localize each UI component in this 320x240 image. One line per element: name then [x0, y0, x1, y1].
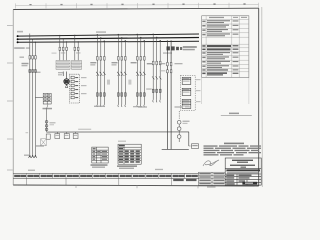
label B left	[112, 62, 118, 63]
label C bottom	[133, 106, 142, 107]
control panel dotted box	[69, 74, 79, 103]
strip lower dividers	[26, 178, 171, 185]
bus L2	[18, 38, 200, 40]
legend row 8	[202, 57, 205, 59]
fuses B	[118, 57, 127, 61]
company band	[226, 169, 260, 171]
feeder1 bottom arrows	[29, 155, 37, 158]
legend row 3	[202, 29, 205, 31]
legend row 1	[202, 20, 238, 36]
OL B	[117, 93, 126, 96]
reference notes lines	[204, 145, 262, 155]
caption table R	[117, 165, 137, 167]
label D left	[147, 63, 153, 64]
motor A terminals	[97, 105, 105, 107]
strip second row right cells	[173, 179, 196, 181]
fuse labels S1	[61, 52, 66, 53]
contacts B	[117, 72, 126, 76]
title rows text	[226, 175, 251, 185]
signature scribble	[203, 160, 219, 166]
instrument box 1	[182, 77, 191, 84]
bottom run wire	[162, 132, 189, 150]
legend row 11	[202, 69, 205, 71]
bus L1	[18, 34, 200, 36]
hanging terminal boxes	[46, 132, 78, 139]
contacts C	[136, 72, 145, 76]
label feeder1 mid	[22, 63, 29, 65]
sheet right edge	[261, 7, 264, 187]
starter S1 drop wires	[60, 36, 78, 61]
label feeder1 top	[14, 47, 25, 49]
bus label	[96, 31, 106, 33]
long control wire	[46, 131, 188, 133]
bottom ruler ticks	[76, 185, 198, 188]
meter tap wire	[35, 97, 43, 99]
tiny text below frame	[207, 186, 216, 187]
bus terminal dots	[17, 35, 19, 37]
motor D terminals	[153, 100, 161, 102]
motor B terminals	[118, 105, 126, 107]
labels near feeder pair	[160, 63, 166, 64]
legend row 7	[202, 52, 205, 54]
contacts D	[152, 76, 161, 79]
caption under legend	[229, 113, 239, 115]
mid small text left	[138, 106, 147, 107]
legend row 2	[202, 25, 205, 27]
feeder pair wires	[167, 41, 171, 149]
left cells of title strip	[199, 172, 226, 185]
reference notes heading	[224, 143, 244, 145]
label A bottom	[94, 106, 104, 107]
bus junction dots	[29, 34, 172, 43]
contactor coil K1	[63, 72, 69, 88]
motor box MX	[189, 144, 199, 149]
label on wire	[78, 129, 91, 130]
fuse F1a	[29, 56, 36, 59]
label left margin	[20, 57, 25, 58]
labels right of control box	[81, 77, 87, 78]
motor group A wires	[97, 35, 104, 105]
legend row 6 dark	[202, 49, 205, 51]
fuses C	[137, 57, 146, 61]
strip row text	[14, 175, 198, 177]
label A left	[90, 62, 96, 63]
legend row 12 dark	[202, 72, 238, 75]
label near K1	[58, 72, 63, 73]
legend row 5 dark	[202, 45, 238, 50]
legend header text	[209, 17, 224, 18]
label chain	[183, 121, 190, 122]
motor group C wires	[137, 34, 144, 104]
misc tiny marks	[52, 53, 57, 54]
X-marked box	[41, 139, 47, 146]
subtitle row	[227, 172, 258, 173]
strip small labels above	[28, 170, 35, 171]
label feeder1 bottom	[24, 155, 29, 156]
strip cell dividers	[26, 173, 184, 178]
label right of B	[128, 80, 131, 85]
terminal table S1 right	[72, 61, 82, 70]
fuses A	[97, 57, 106, 61]
OL D	[152, 89, 161, 92]
label top-left	[17, 31, 23, 33]
legend table R	[118, 144, 141, 164]
OL A	[96, 93, 105, 96]
motor group B wires	[118, 35, 125, 105]
legend row 4	[202, 34, 205, 36]
labels right of panel	[196, 79, 201, 80]
legend table L	[92, 147, 108, 163]
title block box	[225, 158, 261, 185]
feeder group 1 wires	[30, 34, 36, 158]
contacts A	[96, 72, 105, 76]
instrument box 3	[182, 99, 191, 108]
caption table L	[91, 164, 108, 166]
meter chain	[177, 111, 181, 142]
drawing number dark cell	[242, 182, 257, 185]
instrument box 2	[182, 88, 191, 95]
top-right labels	[183, 46, 197, 48]
CT cluster group1	[29, 70, 41, 73]
meter caption	[43, 108, 53, 110]
feeder pair switches	[167, 62, 172, 72]
fuses D	[152, 61, 161, 65]
control chain	[45, 110, 48, 133]
label C left	[131, 62, 137, 63]
title text	[230, 160, 255, 168]
label above table R	[118, 141, 126, 142]
legend row 10	[202, 65, 205, 67]
chain label	[50, 122, 56, 123]
bus L3	[18, 41, 200, 42]
legend row 9	[202, 61, 205, 63]
label right of A	[107, 80, 110, 85]
fuses S1	[59, 47, 79, 50]
left ruler ticks	[7, 26, 13, 171]
motor group D wires	[153, 34, 160, 100]
motor C terminals	[137, 105, 145, 107]
top ruler	[16, 3, 259, 9]
OL C	[136, 93, 145, 96]
top-right fuse blocks	[167, 46, 183, 50]
bottom revision strip	[13, 173, 198, 178]
border frame	[13, 8, 259, 186]
meter cluster M1	[43, 93, 51, 104]
legend box below	[202, 78, 249, 105]
instrument dashed panel	[180, 75, 195, 110]
terminal table S1 left	[56, 61, 70, 70]
right legend table	[202, 16, 249, 78]
